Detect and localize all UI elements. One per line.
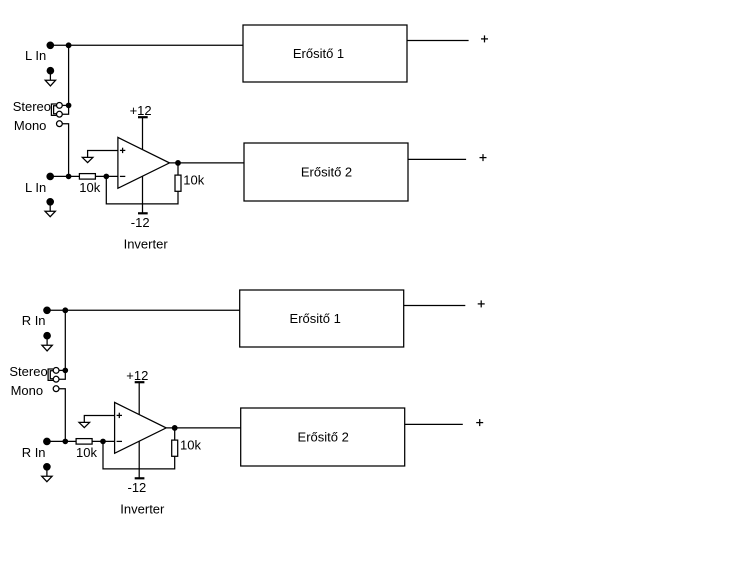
wire stereo contact to junction <box>62 104 68 106</box>
wire non-inverting input <box>84 416 114 423</box>
switch SR bracket (ganged actuator) <box>48 369 53 380</box>
svg-text:Erősitő 1: Erősitő 1 <box>293 46 344 61</box>
svg-text:Stereo: Stereo <box>9 364 47 379</box>
switch SL bracket (ganged actuator) <box>51 104 56 115</box>
label + (output 2 R) <box>476 419 483 426</box>
wire R In top to Erősítő 1 input <box>47 309 240 311</box>
svg-text:+12: +12 <box>130 103 152 118</box>
svg-text:10k: 10k <box>183 172 204 187</box>
+12 supply bar and stem <box>138 117 148 149</box>
wire op-amp output to Erősítő 2 input <box>170 162 245 164</box>
+12 supply bar and stem <box>135 382 145 414</box>
svg-text:-12: -12 <box>131 215 150 230</box>
node R In top terminal <box>44 307 50 313</box>
ground at L In top <box>45 68 55 86</box>
junction at stereo contact tap <box>63 368 67 372</box>
switch SR pole contact <box>53 376 59 382</box>
wire op-amp output to Erősítő 2 input <box>166 427 241 429</box>
wire stereo contact to junction <box>59 369 65 371</box>
output node junction <box>176 161 181 166</box>
svg-text:Inverter: Inverter <box>120 501 165 516</box>
op-amp UR (inverter) <box>115 402 167 453</box>
wire Erősítő 1 output <box>404 305 466 307</box>
wire Erősítő 2 output <box>408 158 466 160</box>
op-amp UL (inverter) <box>118 137 170 188</box>
resistor R1 10k <box>76 439 92 445</box>
resistor R2 10k (feedback) <box>172 440 178 456</box>
ground at L In lower <box>45 199 55 217</box>
switch SR mono contact <box>53 386 59 392</box>
ground at non-inverting input <box>79 422 90 427</box>
wire vertical L In junction down to switch pole <box>62 45 68 114</box>
ground at R In top <box>42 333 52 351</box>
svg-text:L In: L In <box>25 48 46 63</box>
node L In lower terminal <box>47 173 53 179</box>
wire non-inverting input <box>88 151 118 158</box>
svg-text:+12: +12 <box>126 368 148 383</box>
ground at R In lower <box>42 464 52 482</box>
node R In lower terminal <box>44 438 50 444</box>
svg-text:R In: R In <box>22 445 46 460</box>
switch SR stereo contact <box>53 368 59 374</box>
wire R1 to inverting input <box>92 440 115 442</box>
svg-text:L In: L In <box>25 180 46 195</box>
wire mono contact down to R In lower <box>59 389 65 442</box>
junction at L In top <box>66 43 71 48</box>
amplifier block Erősítő 1 (L) <box>243 25 407 82</box>
svg-text:Stereo: Stereo <box>13 99 51 114</box>
label + (output 2 L) <box>480 154 487 161</box>
svg-text:Mono: Mono <box>14 118 47 133</box>
svg-text:Mono: Mono <box>11 383 44 398</box>
wire L In lower to resistor R1 <box>50 175 79 177</box>
ground at non-inverting input <box>82 157 93 162</box>
svg-text:10k: 10k <box>76 445 97 460</box>
switch SL mono contact <box>57 121 63 127</box>
node L In top terminal <box>47 42 53 48</box>
wire mono contact down to L In lower <box>62 124 68 177</box>
amplifier block Erősítő 1 (R) <box>240 290 404 347</box>
wire vertical R In junction down to switch pole <box>59 310 65 379</box>
resistor R2 10k (feedback) <box>175 175 181 191</box>
junction at inverting input <box>101 439 105 443</box>
svg-text:10k: 10k <box>79 180 100 195</box>
wire R In lower to resistor R1 <box>47 440 76 442</box>
feedback wire (inverting input to output node) <box>106 163 178 204</box>
amplifier block Erősítő 2 (L) <box>244 143 408 201</box>
feedback wire (inverting input to output node) <box>103 428 175 469</box>
wire R1 to inverting input <box>95 175 118 177</box>
switch SL stereo contact <box>57 103 63 109</box>
svg-text:Erősitő 2: Erősitő 2 <box>301 165 352 180</box>
wire L In top to Erősítő 1 input <box>50 44 243 46</box>
-12 supply stem and bar <box>138 176 148 213</box>
svg-text:Erősitő 1: Erősitő 1 <box>290 311 341 326</box>
label + (output 1 R) <box>478 300 485 307</box>
switch SL pole contact <box>57 111 63 117</box>
svg-text:R In: R In <box>22 313 46 328</box>
svg-text:Erősitő 2: Erősitő 2 <box>298 430 349 445</box>
wire Erősítő 2 output <box>405 423 463 425</box>
svg-text:-12: -12 <box>128 480 147 495</box>
junction at stereo contact tap <box>66 103 70 107</box>
wire Erősítő 1 output <box>407 40 469 42</box>
junction at inverting input <box>104 174 108 178</box>
label + (output 1 L) <box>481 35 488 42</box>
amplifier block Erősítő 2 (R) <box>241 408 405 466</box>
svg-text:10k: 10k <box>180 437 201 452</box>
junction at R In top <box>63 308 68 313</box>
resistor R1 10k <box>79 174 95 180</box>
output node junction <box>172 426 177 431</box>
svg-text:Inverter: Inverter <box>124 236 169 251</box>
-12 supply stem and bar <box>135 441 145 478</box>
junction at R In lower <box>63 439 67 443</box>
junction at L In lower <box>66 174 70 178</box>
